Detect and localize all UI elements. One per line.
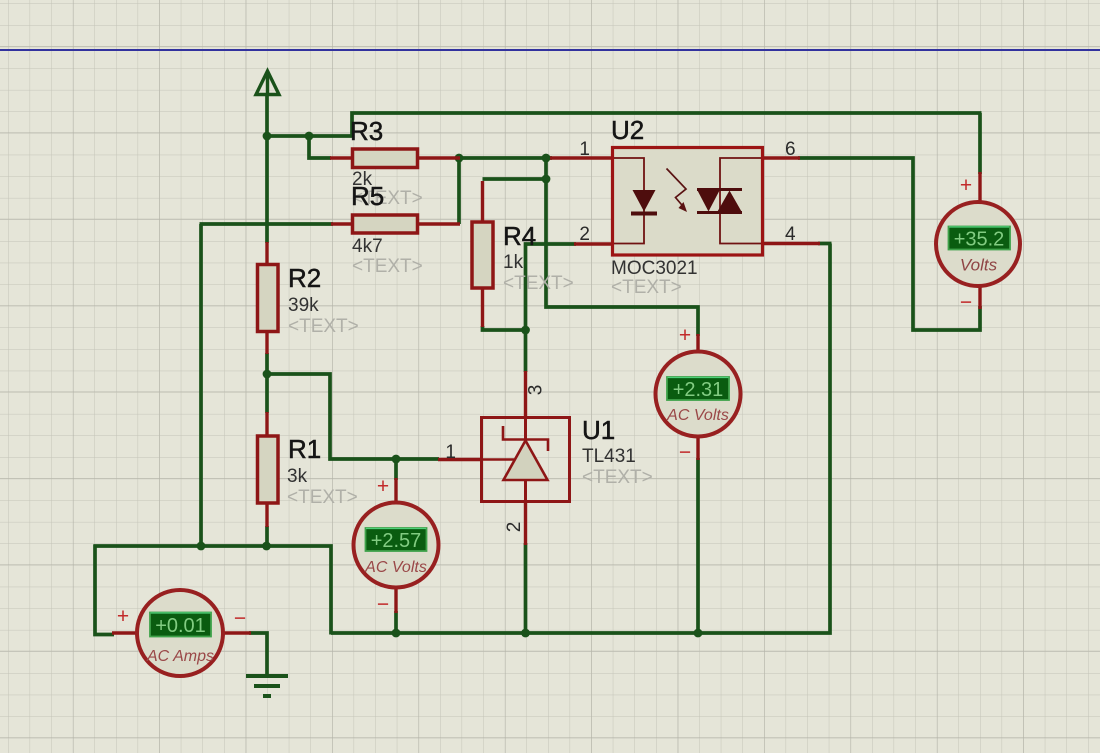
svg-text:−: − (960, 291, 972, 314)
svg-text:4k7: 4k7 (352, 236, 383, 257)
svg-text:1: 1 (445, 442, 456, 463)
meter stubs (978, 172, 981, 203)
wire mid-left bus (94, 546, 332, 635)
svg-text:+: + (117, 605, 129, 628)
svg-text:1: 1 (579, 139, 590, 160)
U2 LED rail (614, 158, 644, 244)
TL431 U1 (481, 417, 570, 502)
svg-text:<TEXT>: <TEXT> (288, 316, 359, 337)
R1 stubs (265, 412, 268, 437)
svg-text:+2.57: +2.57 (371, 530, 422, 552)
svg-text:AC Volts: AC Volts (666, 407, 729, 424)
svg-text:2: 2 (504, 522, 525, 533)
wire top rail riser (352, 113, 982, 138)
wire bottom bus (331, 244, 830, 634)
svg-text:U2: U2 (611, 115, 644, 145)
svg-text:+0.01: +0.01 (155, 615, 206, 637)
svg-text:+2.31: +2.31 (673, 379, 724, 401)
wire left tall rail (199, 224, 203, 548)
wire node to U1 pin1 run (267, 374, 439, 459)
wire power node to corner (266, 134, 353, 138)
svg-text:+: + (679, 324, 691, 347)
U2 triac rail (720, 158, 761, 244)
wire mid riser to AC voltmeter (546, 158, 698, 336)
R5 stubs (331, 222, 353, 225)
svg-text:1k: 1k (503, 252, 524, 273)
svg-text:<TEXT>: <TEXT> (503, 273, 574, 294)
svg-text:<TEXT>: <TEXT> (611, 277, 682, 298)
sheet border line (0, 49, 1100, 51)
wire power stem (265, 96, 269, 137)
label R2 (288, 263, 359, 337)
voltmeter AC Volts U2 side (656, 324, 741, 464)
U1 cathode bar (503, 426, 548, 451)
wire R4 bottom link (483, 326, 526, 330)
wire R2 bottom to node (265, 353, 269, 375)
svg-text:MOC3021: MOC3021 (611, 258, 698, 279)
wire R4 top link (483, 177, 548, 181)
optocoupler U2 (613, 148, 763, 256)
svg-text:<TEXT>: <TEXT> (582, 467, 653, 488)
R3 stubs (330, 156, 353, 159)
wire U2 pin6 run (798, 158, 980, 330)
wire AC voltmeter2 bottom (394, 611, 398, 635)
svg-text:R5: R5 (351, 181, 384, 211)
wire R1 bottom (265, 526, 269, 547)
U1 anode triangle (504, 441, 548, 481)
U2 pin stubs (550, 156, 613, 159)
svg-text:AC Amps: AC Amps (146, 648, 214, 665)
svg-text:−: − (377, 593, 389, 616)
R2 stubs (265, 242, 268, 266)
U2 triac (697, 188, 742, 191)
wire R3 branch (309, 136, 331, 158)
svg-text:4: 4 (785, 224, 796, 245)
power symbol (256, 71, 279, 96)
label R5 (351, 181, 423, 277)
svg-text:R2: R2 (288, 263, 321, 293)
label U1 (582, 415, 653, 488)
wire node to U2 pin1 (459, 156, 552, 160)
U1 pin stubs (438, 458, 482, 461)
svg-text:U1: U1 (582, 415, 615, 445)
svg-text:R4: R4 (503, 221, 536, 251)
wire AC voltmeter bottom (696, 458, 700, 635)
wire left power rail down (265, 136, 269, 243)
resistor R3 (353, 149, 418, 168)
U2 light arrow (667, 169, 687, 208)
wire R5 right riser (457, 157, 461, 224)
svg-text:AC Volts: AC Volts (364, 559, 427, 576)
voltmeter AC Volts lower (354, 475, 439, 616)
svg-text:2: 2 (579, 224, 590, 245)
wire R5 left (200, 222, 334, 226)
svg-text:Volts: Volts (960, 256, 998, 275)
resistor R5 (353, 215, 418, 233)
U1 internal pin lines (524, 417, 527, 440)
label R4 (503, 221, 574, 294)
pin stubs red (112, 158, 980, 633)
svg-text:39k: 39k (288, 295, 319, 316)
wire lower-left bus (95, 545, 114, 635)
svg-text:+: + (377, 475, 389, 498)
wire ammeter minus to ground (249, 633, 267, 675)
wire node to R1 top (265, 374, 269, 413)
resistor R2 (258, 265, 279, 332)
label U2 (611, 115, 698, 298)
resistor R4 (472, 222, 493, 288)
voltmeter Volts (936, 174, 1020, 314)
svg-text:R1: R1 (288, 434, 321, 464)
wire U2 pin4 link (818, 242, 832, 246)
svg-text:<TEXT>: <TEXT> (287, 487, 358, 508)
svg-text:+: + (960, 174, 972, 197)
label R1 (287, 434, 358, 508)
svg-text:3: 3 (526, 385, 547, 396)
ground (246, 676, 288, 696)
label R3 (350, 116, 423, 209)
svg-text:−: − (679, 441, 691, 464)
ammeter AC Amps (117, 590, 246, 676)
wire U1 pin2 down (524, 543, 528, 635)
svg-text:TL431: TL431 (582, 446, 636, 467)
U2 LED diode (633, 190, 656, 212)
resistor R1 (258, 436, 279, 503)
wire AC voltmeter2 top (394, 459, 398, 480)
svg-text:+35.2: +35.2 (954, 229, 1005, 251)
wire voltmeter plus drop (978, 113, 982, 174)
svg-text:<TEXT>: <TEXT> (352, 256, 423, 277)
wire U2 pin2 link (526, 244, 577, 372)
svg-text:R3: R3 (350, 116, 383, 146)
svg-text:6: 6 (785, 139, 796, 160)
svg-text:−: − (234, 607, 246, 630)
svg-text:3k: 3k (287, 466, 308, 487)
R4 stubs (481, 181, 484, 223)
